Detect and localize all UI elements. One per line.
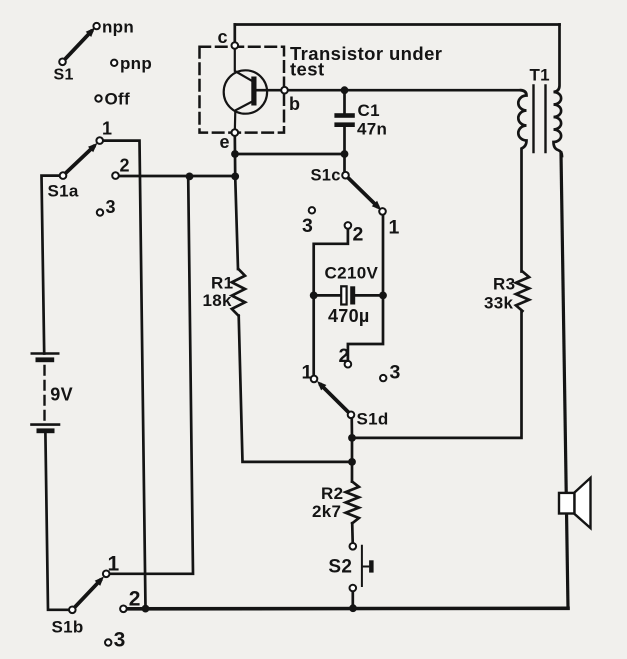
svg-text:2: 2 xyxy=(353,224,364,246)
wire S1a pivot to battery rail xyxy=(42,176,64,354)
switch S1b contact 3 xyxy=(105,639,111,645)
switch S1c contact 3 xyxy=(309,207,315,213)
junction node e-R1 xyxy=(231,173,239,181)
svg-text:2: 2 xyxy=(339,345,350,367)
svg-text:e: e xyxy=(220,132,230,152)
svg-text:470µ: 470µ xyxy=(328,306,370,326)
switch S1a contact 2 xyxy=(112,172,119,179)
svg-text:2: 2 xyxy=(120,156,130,176)
wire S1c pos1 down to C2 right and S1d pos2 xyxy=(348,211,383,364)
svg-text:9V: 9V xyxy=(50,385,73,405)
switch S1a arm xyxy=(63,147,93,176)
wire battery negative to S1b pivot xyxy=(45,433,72,610)
switch S2 top contact xyxy=(350,543,357,550)
junction node S2 bottom rail xyxy=(349,604,357,612)
battery B1 cell2 short thick plate xyxy=(37,428,55,433)
contact npn xyxy=(93,23,99,29)
wire R1 bottom to S1d junction xyxy=(239,316,352,462)
wire S1d pivot down through junctions to R2 xyxy=(350,415,353,482)
contact pnp xyxy=(111,60,117,66)
svg-text:Off: Off xyxy=(105,90,130,109)
svg-text:pnp: pnp xyxy=(120,54,152,73)
switch S1d contact 1 xyxy=(311,376,318,383)
junction node C2 right xyxy=(379,292,387,300)
capacitor C2 negative plate xyxy=(350,286,355,304)
speaker LS1 driver xyxy=(559,493,575,514)
switch S1d contact 3 xyxy=(380,375,386,381)
switch S1 arm xyxy=(63,32,92,62)
wire base lead b to transformer T1 xyxy=(256,89,521,92)
svg-text:10V: 10V xyxy=(347,264,379,283)
svg-text:2k7: 2k7 xyxy=(312,502,341,521)
svg-text:3: 3 xyxy=(390,362,401,384)
svg-text:3: 3 xyxy=(302,215,313,237)
wire S1a pos1 down to S1b pos2 xyxy=(100,141,146,609)
svg-text:1: 1 xyxy=(102,119,112,139)
switch S1c pivot xyxy=(342,172,349,179)
svg-text:test: test xyxy=(290,59,325,80)
switch S2 bottom contact xyxy=(350,585,357,592)
junction node R1-R2 xyxy=(348,458,356,466)
svg-text:S1a: S1a xyxy=(48,182,79,201)
svg-text:S2: S2 xyxy=(328,557,352,578)
wire right rail below T1 xyxy=(561,153,568,608)
wire C2 left lead xyxy=(314,294,342,297)
switch S1d contact 2 xyxy=(345,361,352,368)
transformer T1 core xyxy=(532,86,534,153)
terminal c xyxy=(232,42,239,49)
contact Off xyxy=(95,95,101,101)
speaker LS1 horn xyxy=(575,478,591,528)
svg-text:1: 1 xyxy=(389,217,400,239)
switch S1 pivot xyxy=(59,59,66,66)
junction node bottom rail left xyxy=(142,605,150,613)
junction node e branch xyxy=(231,150,239,158)
svg-text:S1c: S1c xyxy=(311,167,341,185)
switch S1a contact 3 xyxy=(97,209,103,215)
battery B1 dashed link xyxy=(43,366,45,420)
switch S1b contact 2 xyxy=(120,606,127,613)
svg-text:18k: 18k xyxy=(203,291,233,310)
svg-text:C1: C1 xyxy=(358,101,380,120)
wire top rail xyxy=(235,23,560,26)
switch S1c contact 1 xyxy=(379,208,386,215)
wire junction to R3 bottom xyxy=(352,311,522,438)
svg-text:3: 3 xyxy=(106,197,116,217)
wire node e to node under C1 xyxy=(235,153,345,156)
terminal b xyxy=(281,87,288,94)
switch S1d pivot xyxy=(348,412,355,419)
switch S1b contact 1 xyxy=(103,571,110,578)
svg-text:npn: npn xyxy=(102,17,134,36)
svg-text:2: 2 xyxy=(129,588,141,611)
switch S1c contact 2 xyxy=(345,222,352,229)
transformer T1 primary winding xyxy=(518,90,526,271)
junction node S1d-R3 xyxy=(348,434,356,442)
svg-text:R3: R3 xyxy=(493,275,515,294)
switch S1a contact 1 xyxy=(96,137,103,144)
switch S1b pivot xyxy=(69,607,76,614)
transistor Q1 body circle xyxy=(224,70,267,113)
wire e down to R1 branch xyxy=(235,133,238,269)
transistor Q1 base bar xyxy=(251,77,256,106)
transformer T1 secondary winding xyxy=(554,25,563,157)
svg-text:47n: 47n xyxy=(357,120,387,139)
wire C2 right lead xyxy=(355,294,383,297)
svg-text:S1d: S1d xyxy=(357,410,389,429)
battery B1 cell1 long plate xyxy=(32,352,58,355)
svg-text:1: 1 xyxy=(302,362,313,384)
wire junction to S1b pos1 xyxy=(106,176,193,573)
svg-text:C2: C2 xyxy=(325,264,347,283)
capacitor C1 top plate xyxy=(334,113,354,118)
terminal e xyxy=(232,129,239,136)
battery B1 cell2 long plate xyxy=(32,423,60,426)
resistor R2 xyxy=(346,482,359,524)
wire emitter lead xyxy=(235,102,252,133)
wire S1c pos2 down to C2 left and S1d pos1 xyxy=(314,225,348,379)
wire S1a pos2 to R1 branch xyxy=(116,175,236,178)
svg-text:S1b: S1b xyxy=(52,618,84,637)
dashed box transistor under test xyxy=(200,47,285,133)
svg-text:R1: R1 xyxy=(211,274,233,293)
switch S2 actuator xyxy=(362,546,368,586)
junction node C2 left xyxy=(310,292,318,300)
wire S2 bottom to rail xyxy=(351,588,354,608)
resistor R3 xyxy=(516,272,529,312)
battery B1 cell1 short thick plate xyxy=(36,357,55,362)
svg-text:c: c xyxy=(218,27,228,47)
junction node b / C1 xyxy=(341,86,349,94)
svg-text:R2: R2 xyxy=(321,484,343,503)
svg-text:S1: S1 xyxy=(54,67,74,84)
svg-text:3: 3 xyxy=(114,628,126,651)
svg-text:T1: T1 xyxy=(530,66,550,85)
svg-text:b: b xyxy=(289,94,300,114)
switch S1d arm xyxy=(321,385,351,415)
wire C1 branch from node b to S1c pivot xyxy=(343,90,346,175)
wire R2 bottom to S2 xyxy=(351,523,354,546)
wire collector lead from top rail to transistor xyxy=(233,25,236,46)
switch S1a pivot xyxy=(60,172,67,179)
junction node under C1 xyxy=(341,150,349,158)
wire bottom rail xyxy=(123,606,568,610)
switch S1b arm xyxy=(72,581,100,610)
svg-text:1: 1 xyxy=(108,553,120,576)
capacitor C1 bottom plate xyxy=(334,122,354,127)
resistor R1 xyxy=(232,269,245,316)
capacitor C2 positive plate xyxy=(341,286,346,304)
svg-text:33k: 33k xyxy=(484,294,514,313)
junction node S1a-S1b link xyxy=(186,173,194,181)
switch S1c arm xyxy=(346,175,378,206)
